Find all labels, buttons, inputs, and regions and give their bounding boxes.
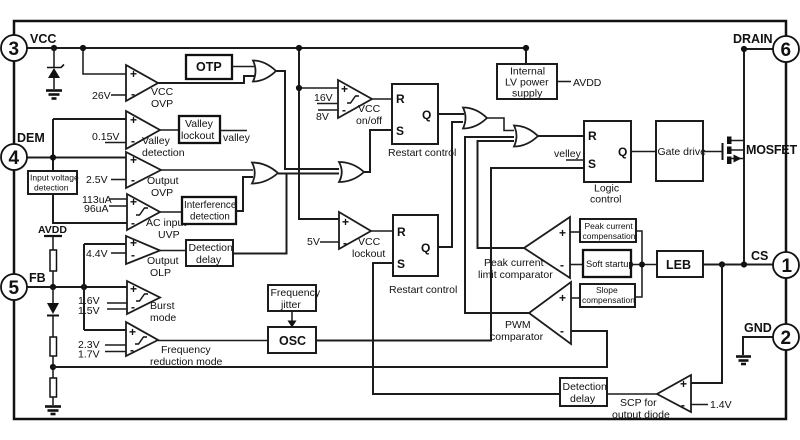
wire VCC on/off plus input xyxy=(299,87,338,89)
comparator SCP for output diode xyxy=(612,375,732,421)
svg-text:FB: FB xyxy=(29,271,46,285)
OR gate B (fault combine left) xyxy=(252,163,278,184)
node divider tap junction xyxy=(50,364,56,370)
svg-text:Q: Q xyxy=(421,241,430,255)
svg-text:Valley: Valley xyxy=(185,118,214,130)
svg-text:supply: supply xyxy=(512,88,543,100)
svg-text:3: 3 xyxy=(9,39,20,60)
svg-text:R: R xyxy=(396,92,405,106)
wire to divider tap xyxy=(52,356,54,378)
pin 6 DRAIN xyxy=(733,32,799,62)
net valley (overlined stub) xyxy=(220,131,251,145)
svg-text:-: - xyxy=(560,258,564,272)
node CS-MOSFET junction xyxy=(741,261,747,267)
block peak current compensation xyxy=(570,219,636,242)
svg-text:DRAIN: DRAIN xyxy=(733,32,773,46)
wire input voltage detection to AC UVP minus xyxy=(53,194,127,223)
svg-text:2.5V: 2.5V xyxy=(86,174,108,186)
wire DEM line to Output OVP xyxy=(27,157,126,159)
svg-text:Q: Q xyxy=(618,145,627,159)
block interference detection xyxy=(182,197,237,224)
svg-text:Interference: Interference xyxy=(184,200,237,211)
wire FB comparator branch vertical xyxy=(84,244,126,330)
comparator output OVP xyxy=(86,152,179,199)
svg-text:+: + xyxy=(130,153,137,167)
wire OSC output to logic control S xyxy=(316,168,584,341)
transistor MOSFET xyxy=(703,137,797,165)
svg-text:R: R xyxy=(397,225,406,239)
svg-text:VCC: VCC xyxy=(151,86,174,98)
block internal LV power supply xyxy=(497,64,557,100)
svg-text:VCC: VCC xyxy=(358,236,381,248)
pin 2 GND xyxy=(744,321,799,350)
net AVDD label xyxy=(573,77,602,89)
wire restart B S input from detection delay 2 xyxy=(373,263,560,394)
svg-text:+: + xyxy=(130,195,137,209)
svg-text:96uA: 96uA xyxy=(84,203,109,215)
block valley lockout xyxy=(179,116,220,143)
wire VCC OVP output to OR gate xyxy=(158,76,254,83)
svg-text:-: - xyxy=(131,248,135,262)
svg-text:delay: delay xyxy=(196,254,222,266)
svg-text:UVP: UVP xyxy=(158,229,180,241)
svg-text:Gate drive: Gate drive xyxy=(658,146,707,158)
wire OR-E output to logic control R xyxy=(538,135,584,137)
block input voltage detection xyxy=(28,171,79,194)
flip-flop restart control A xyxy=(388,84,456,159)
svg-text:5: 5 xyxy=(9,278,20,299)
svg-text:1: 1 xyxy=(782,256,793,277)
wire AVDD output of LV supply xyxy=(557,81,571,83)
wire OR-A output down to fault OR xyxy=(276,71,339,169)
svg-text:Output: Output xyxy=(147,175,179,187)
comparator VCC lockout xyxy=(307,212,385,260)
svg-text:CS: CS xyxy=(751,249,768,263)
svg-text:+: + xyxy=(130,113,137,127)
svg-text:6: 6 xyxy=(781,40,792,61)
wire divider tap to PWM minus input xyxy=(53,331,607,367)
wire OR-C output to S of restart control A xyxy=(364,130,392,172)
flip-flop restart control B xyxy=(389,215,457,296)
comparator burst mode xyxy=(78,281,176,324)
svg-text:jitter: jitter xyxy=(280,299,301,311)
wire AC UVP output xyxy=(160,211,182,213)
node DEM junction xyxy=(50,154,56,160)
wire resistor to FB node xyxy=(52,271,54,287)
ground below zener xyxy=(46,91,62,99)
svg-text:Input voltage: Input voltage xyxy=(30,173,79,183)
wire OR-B output to OR-C xyxy=(278,173,339,175)
wire interference detection to OR-B xyxy=(236,177,253,211)
svg-text:26V: 26V xyxy=(92,90,111,102)
pin 4 DEM xyxy=(1,131,45,170)
ground GND pin xyxy=(736,357,751,365)
wire VCC lockout output to R xyxy=(371,230,393,232)
svg-text:AVDD: AVDD xyxy=(38,224,67,236)
svg-text:LEB: LEB xyxy=(666,258,691,272)
svg-text:lockout: lockout xyxy=(352,248,385,260)
svg-text:mode: mode xyxy=(150,312,176,324)
wire OR-D output to OR-E xyxy=(487,118,514,131)
svg-text:0.15V: 0.15V xyxy=(92,131,119,143)
block logic control xyxy=(584,121,631,206)
block frequency jitter xyxy=(268,285,321,311)
svg-text:Slope: Slope xyxy=(596,285,618,295)
wire VCC on/off output to R xyxy=(372,98,392,100)
svg-text:compensation: compensation xyxy=(582,295,635,305)
svg-text:-: - xyxy=(131,300,135,314)
svg-text:R: R xyxy=(588,129,597,143)
svg-text:Soft startup: Soft startup xyxy=(586,259,634,269)
wire internal LV supply feed xyxy=(525,48,527,64)
svg-text:Frequency: Frequency xyxy=(271,287,321,299)
svg-text:+: + xyxy=(559,226,566,240)
wire VCC sense vertical to on/off and lockout xyxy=(299,48,339,219)
svg-text:1.4V: 1.4V xyxy=(710,399,732,411)
comparator AC input UVP xyxy=(82,194,186,241)
svg-text:valley: valley xyxy=(223,132,251,144)
node compensation junction xyxy=(639,262,645,268)
wire GND pin to ground xyxy=(743,337,773,355)
svg-text:DEM: DEM xyxy=(17,131,45,145)
comparator VCC OVP xyxy=(92,65,174,110)
block gate drive xyxy=(656,121,706,181)
pin 3 VCC xyxy=(1,32,56,61)
svg-text:16V: 16V xyxy=(314,92,333,104)
svg-text:AVDD: AVDD xyxy=(573,77,602,89)
wire PWM output up to OR-E xyxy=(465,137,529,313)
wire restart A Q output to OR-D xyxy=(438,113,464,115)
node CS-SCP junction xyxy=(719,261,725,267)
svg-text:1.5V: 1.5V xyxy=(78,305,100,317)
svg-text:-: - xyxy=(560,324,564,338)
svg-text:+: + xyxy=(680,377,687,391)
wire jitter arrow to OSC xyxy=(288,311,297,328)
svg-text:Detection: Detection xyxy=(563,381,608,393)
wire peak limit output up to OR-E xyxy=(478,141,525,248)
wire CS to SCP plus input xyxy=(691,265,722,384)
wire restart B Q up to OR-D xyxy=(438,122,463,247)
wire resistor to ground xyxy=(52,397,54,405)
svg-text:-: - xyxy=(131,87,135,101)
svg-text:MOSFET: MOSFET xyxy=(746,143,797,157)
OR gate E (logic reset combine) xyxy=(514,126,538,147)
comparator PWM xyxy=(490,282,571,344)
wire output OVP to fault OR-B xyxy=(161,169,253,171)
svg-text:detection: detection xyxy=(190,212,230,223)
svg-text:comparator: comparator xyxy=(490,331,544,343)
svg-text:-: - xyxy=(131,173,135,187)
resistor FB upper xyxy=(50,337,57,356)
svg-text:SCP for: SCP for xyxy=(620,397,657,409)
svg-text:Detection: Detection xyxy=(189,242,234,254)
wire frequency comparator to OSC xyxy=(158,340,268,342)
wire SCP output to detection delay 2 xyxy=(607,393,657,395)
svg-text:-: - xyxy=(342,103,346,117)
svg-text:OTP: OTP xyxy=(196,60,222,74)
wire FB line xyxy=(27,286,127,288)
svg-text:S: S xyxy=(397,257,405,271)
svg-text:velley: velley xyxy=(554,148,582,160)
svg-text:8V: 8V xyxy=(316,111,329,123)
node FB divider junction xyxy=(50,284,56,290)
svg-text:detection: detection xyxy=(142,147,185,159)
svg-text:AC input: AC input xyxy=(146,217,186,229)
svg-text:5V: 5V xyxy=(307,236,320,248)
svg-text:OLP: OLP xyxy=(150,267,171,279)
node VCC sense junction top xyxy=(296,45,302,51)
svg-text:-: - xyxy=(131,134,135,148)
svg-text:OVP: OVP xyxy=(151,187,173,199)
svg-text:reduction mode: reduction mode xyxy=(150,356,223,368)
OR gate A (OTP / VCC OVP) xyxy=(253,61,276,82)
block detection delay 2 xyxy=(560,378,607,406)
comparator output OLP xyxy=(86,236,179,279)
svg-text:-: - xyxy=(130,343,134,357)
svg-text:GND: GND xyxy=(744,321,772,335)
block LEB xyxy=(657,251,703,277)
resistor AVDD to FB xyxy=(50,250,57,271)
svg-text:+: + xyxy=(341,82,348,96)
svg-text:VCC: VCC xyxy=(30,32,56,46)
comparator frequency reduction mode xyxy=(78,322,223,368)
wire drain line pin6 to MOSFET and source to CS xyxy=(744,49,773,265)
net velley (labelled stub at S) xyxy=(554,148,584,160)
block OTP xyxy=(186,55,232,79)
node LV supply junction xyxy=(523,45,529,51)
wire compensation network to LEB line xyxy=(631,231,657,297)
wire OTP output xyxy=(232,66,254,68)
svg-text:+: + xyxy=(129,325,136,339)
pin 1 CS xyxy=(751,249,799,278)
node VCC-zener junction xyxy=(51,45,57,51)
svg-text:1.7V: 1.7V xyxy=(78,349,100,361)
svg-text:limit comparator: limit comparator xyxy=(478,269,553,281)
svg-text:-: - xyxy=(131,216,135,230)
OR gate C (fault combine right) xyxy=(339,162,364,182)
svg-text:OSC: OSC xyxy=(279,334,306,348)
node VCC on/off branch junction xyxy=(296,85,302,91)
wire DEM vertical to valley detection xyxy=(53,119,126,158)
block OSC xyxy=(268,327,316,353)
svg-text:Q: Q xyxy=(422,108,431,122)
svg-text:2: 2 xyxy=(781,328,792,349)
comparator peak current limit xyxy=(478,217,570,281)
zener diode on VCC xyxy=(47,48,64,89)
wire logic Q to gate drive xyxy=(631,151,656,153)
svg-text:PWM: PWM xyxy=(505,319,531,331)
pin 5 FB xyxy=(1,271,46,300)
svg-text:delay: delay xyxy=(570,393,596,405)
node drain junction xyxy=(741,46,747,52)
svg-text:4: 4 xyxy=(9,148,20,169)
svg-text:S: S xyxy=(588,157,596,171)
wire LEB output to CS pin xyxy=(703,264,773,266)
svg-text:Peak current: Peak current xyxy=(585,221,634,231)
comparator valley detection xyxy=(92,111,185,159)
block slope compensation xyxy=(571,284,635,307)
svg-text:compensation: compensation xyxy=(583,231,636,241)
svg-text:control: control xyxy=(590,194,622,206)
ground FB divider xyxy=(45,407,61,415)
svg-text:S: S xyxy=(396,124,404,138)
svg-text:lockout: lockout xyxy=(181,130,214,142)
svg-text:OVP: OVP xyxy=(151,98,173,110)
svg-text:detection: detection xyxy=(34,183,69,193)
block detection delay 1 xyxy=(186,240,233,266)
svg-text:-: - xyxy=(343,236,347,250)
wire DEM down to input voltage detection xyxy=(52,158,54,172)
svg-text:+: + xyxy=(559,291,566,305)
resistor FB lower xyxy=(50,378,57,397)
svg-text:4.4V: 4.4V xyxy=(86,248,108,260)
wire valley detection output xyxy=(160,129,179,131)
svg-text:Peak current: Peak current xyxy=(484,257,544,269)
svg-text:Frequency: Frequency xyxy=(161,344,211,356)
block soft startup xyxy=(570,250,634,277)
comparator VCC on/off xyxy=(314,80,382,127)
AVDD supply rail tap xyxy=(38,224,67,250)
OR gate D (restart Q combine) xyxy=(463,108,487,129)
svg-text:on/off: on/off xyxy=(356,115,382,127)
svg-text:Output: Output xyxy=(147,255,179,267)
svg-text:Burst: Burst xyxy=(150,300,175,312)
wire OLP output xyxy=(160,250,186,252)
svg-text:Valley: Valley xyxy=(142,135,171,147)
svg-text:output diode: output diode xyxy=(612,409,670,421)
svg-text:+: + xyxy=(342,215,349,229)
svg-text:Restart control: Restart control xyxy=(389,284,457,296)
node FB comparator branch junction xyxy=(81,284,87,290)
svg-text:+: + xyxy=(130,67,137,81)
svg-text:+: + xyxy=(130,282,137,296)
svg-text:VCC: VCC xyxy=(358,103,381,115)
svg-text:-: - xyxy=(681,398,685,412)
wire VCC rail from pin 3 xyxy=(27,47,527,49)
wire VCC OVP plus-input branch xyxy=(83,48,126,74)
wire detection delay 1 output joining OR-B line xyxy=(233,174,287,254)
diode FB chain xyxy=(47,287,59,337)
svg-text:Restart control: Restart control xyxy=(388,147,456,159)
node VCC OVP branch junction xyxy=(80,45,86,51)
